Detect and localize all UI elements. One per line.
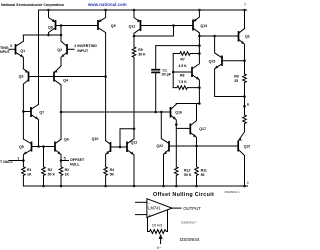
transistor Q1 (NPN) <box>9 35 25 69</box>
op-amp LM741 triangle <box>147 199 172 218</box>
node dot R3 bottom on V- rail <box>42 185 45 188</box>
transistor Q4 (PNP, mirrored) <box>54 66 68 112</box>
node dot Q7 emitter on base line <box>37 145 40 148</box>
node dot Q15 base / Q14 emitter junction <box>243 59 246 62</box>
node dot Q13 collector <box>198 35 201 38</box>
node dot Q17 emitter / R11 top <box>195 145 198 148</box>
wire: C1 top loop <box>156 46 200 70</box>
node dot diode link bottom <box>60 34 63 37</box>
input stubs <box>136 201 147 203</box>
svg-text:INPUT: INPUT <box>77 49 89 53</box>
svg-text:R1: R1 <box>27 168 32 172</box>
svg-text:5: 5 <box>64 157 66 161</box>
svg-text:4: 4 <box>247 181 249 185</box>
wire: Q13 collector net down (C1 top, R7 right, Q18 collector) <box>198 36 200 63</box>
svg-text:50 K: 50 K <box>48 173 56 177</box>
node dot Q12 collector/R5 <box>133 35 136 38</box>
transistor Q18 (NPN, VBE multiplier) <box>173 64 199 88</box>
svg-text:R4: R4 <box>110 168 115 172</box>
node dot Q20 collector on V- rail (pin 4) <box>243 185 246 188</box>
resistor R3 50K <box>42 147 56 187</box>
transistor Q7 (NPN) <box>23 104 44 146</box>
svg-text:6: 6 <box>247 103 249 107</box>
node dot Q11 diode link on collector line <box>133 128 136 131</box>
transistor Q5 (NPN, mirrored) <box>19 139 32 161</box>
svg-text:OUTPUT: OUTPUT <box>183 206 201 211</box>
svg-text:www.national.com: www.national.com <box>87 2 127 7</box>
svg-text:Q12: Q12 <box>129 24 136 28</box>
svg-text:Q9: Q9 <box>111 24 116 28</box>
wire: R5 / Q12 collector down to Q11 collector <box>133 36 135 47</box>
resistor R12 50K <box>175 167 192 186</box>
pin 1 offset null stub <box>9 160 23 162</box>
svg-text:50: 50 <box>201 173 205 177</box>
svg-text:R11: R11 <box>201 169 207 173</box>
wire: second stage input line <box>61 111 171 113</box>
svg-text:Q15: Q15 <box>209 60 216 64</box>
svg-text:10 kΩ: 10 kΩ <box>152 223 163 228</box>
svg-text:Q22: Q22 <box>156 144 163 148</box>
transistor Q12 (PNP) <box>129 9 193 36</box>
svg-text:Q6: Q6 <box>64 138 69 142</box>
node dot Q11 emitter on V- rail <box>133 185 136 188</box>
svg-text:7: 7 <box>244 3 246 7</box>
wire: Q18 emitter net down to Q17 collector <box>198 88 200 104</box>
node dot diode link top <box>60 24 63 27</box>
svg-text:1: 1 <box>17 157 19 161</box>
resistor R10 50 <box>243 115 247 132</box>
node dot Q12 diode link to base line <box>172 24 175 27</box>
transistor Q3 (PNP) <box>19 69 29 139</box>
svg-text:30 pF: 30 pF <box>162 73 172 77</box>
svg-text:39 K: 39 K <box>138 52 146 56</box>
node dot Q16 emitter / Q17 base <box>175 123 178 126</box>
wire: R7/R8 left rail with Q18 base tap <box>172 54 174 88</box>
svg-text:DS00934: DS00934 <box>180 237 200 242</box>
node dot C1 bottom on second stage line <box>154 111 157 114</box>
resistor R11 50 <box>195 146 207 186</box>
node dot Q7 base tap <box>22 110 25 113</box>
wire: Q9 collector down to Q10 collector <box>105 34 107 141</box>
transistor Q16 (NPN, second stage input) <box>171 104 182 167</box>
svg-text:R3: R3 <box>48 168 53 172</box>
V+ top rail (pin 7) with left bend down to Q7 collector <box>39 10 247 104</box>
node: Q1/Q2 collectors to Q8 collector line <box>23 34 61 36</box>
transistor Q8 (PNP) <box>47 9 98 35</box>
svg-text:4.5 K: 4.5 K <box>178 64 187 68</box>
svg-text:DS009341-1: DS009341-1 <box>225 190 241 194</box>
node dot output pin 6 <box>243 105 246 108</box>
svg-text:Q3: Q3 <box>19 75 24 79</box>
transistor Q11 (NPN) <box>120 139 137 186</box>
svg-text:DS009341-7: DS009341-7 <box>181 220 197 224</box>
transistor Q15 (NPN, current limit) <box>209 36 245 97</box>
node dot R11 bottom on V- rail <box>195 185 198 188</box>
svg-text:Q7: Q7 <box>39 111 44 115</box>
svg-text:3: 3 <box>10 44 12 48</box>
wire: Q13 collector node to Q14 base <box>199 35 238 37</box>
svg-text:2: 2 <box>74 44 76 48</box>
transistor Q14 (NPN, output top) <box>239 29 252 75</box>
node dot R4 bottom on V- rail <box>104 185 107 188</box>
svg-text:INVERTING: INVERTING <box>77 44 97 48</box>
transistor Q17 (NPN) <box>176 104 206 147</box>
transistor Q9 (PNP, mirrored) <box>98 9 116 34</box>
wire: base tie up and over to Q11 collector (diode link) <box>120 129 134 147</box>
svg-text:50 K: 50 K <box>184 173 192 177</box>
svg-text:Q10: Q10 <box>92 137 99 141</box>
svg-text:LM741: LM741 <box>148 206 161 211</box>
node dot C1 top branch <box>198 44 201 47</box>
wiper arrow <box>159 234 163 239</box>
node dot Q8 collector <box>47 34 50 37</box>
svg-text:25: 25 <box>234 79 238 83</box>
capacitor C1 30pF <box>151 68 172 112</box>
node dot pin5/R2/Q6 emitter junction <box>60 159 63 162</box>
output wire <box>172 207 181 209</box>
node dot Q3/Q4 base tie on Q9 collector line <box>104 75 107 78</box>
svg-text:T NULL: T NULL <box>0 160 14 164</box>
svg-text:R8: R8 <box>180 74 185 78</box>
node dot Q15 emitter on output net <box>243 95 246 98</box>
wire: Q12 diode link <box>134 26 174 37</box>
svg-text:R9: R9 <box>234 75 239 79</box>
svg-text:NULL: NULL <box>70 163 80 167</box>
node dot Q22 emitter on V- rail <box>162 185 165 188</box>
transistor Q22 (NPN) <box>156 112 169 186</box>
wire: Q3/Q4 base line to Q9 collector <box>29 76 106 78</box>
resistor R7 4.5K (horizontal) <box>173 52 199 68</box>
resistor R9 25 <box>234 74 246 115</box>
V- bottom rail (pin 4) <box>23 185 247 187</box>
resistor R4 5K <box>104 167 115 186</box>
wire: Q8 diode link (base to collector) <box>60 26 62 36</box>
svg-text:V−: V− <box>157 246 162 250</box>
svg-text:Q4: Q4 <box>63 79 68 83</box>
transistor Q20 (PNP, output bottom) <box>238 132 250 186</box>
transistor Q6 (NPN) <box>55 112 69 161</box>
node dot Q18 emitter / R8 junction <box>198 86 201 89</box>
svg-text:R7: R7 <box>180 57 185 61</box>
svg-text:Q8: Q8 <box>48 25 53 29</box>
transistor Q2 (NPN, mirrored) <box>57 35 74 66</box>
node dot R12 bottom on V- rail <box>175 185 178 188</box>
resistor R8 7.5K (horizontal) <box>173 74 199 90</box>
svg-text:Q13: Q13 <box>200 24 207 28</box>
wire: Q16 collector line to Q17 collector net <box>176 103 199 105</box>
svg-text:Q2: Q2 <box>57 48 62 52</box>
svg-text:Q1: Q1 <box>20 49 25 53</box>
svg-text:5K: 5K <box>110 173 115 177</box>
resistor R5 39K <box>132 47 146 139</box>
node dot R2 bottom on V- rail <box>60 185 63 188</box>
transistor Q13 (PNP, mirrored) <box>193 9 207 36</box>
resistor R2 1K <box>59 161 69 187</box>
svg-text:1K: 1K <box>65 173 70 177</box>
svg-text:Q5: Q5 <box>19 145 24 149</box>
node dot Q15 collector branch <box>213 35 216 38</box>
resistor R1 1K <box>22 161 32 187</box>
svg-text:OFFSET: OFFSET <box>70 158 85 162</box>
svg-text:1K: 1K <box>27 173 32 177</box>
wire: Q17 emitter / Q22 base / Q20 base line <box>169 145 238 147</box>
svg-text:Q16: Q16 <box>175 110 182 114</box>
node dot R7 right end <box>198 52 201 55</box>
svg-text:Q14: Q14 <box>245 35 250 39</box>
pin 5 offset null stub <box>61 160 69 162</box>
svg-text:Offset Nulling Circuit: Offset Nulling Circuit <box>153 192 214 198</box>
node dot Q4 collector / second stage line <box>60 111 63 114</box>
node dot Q22 collector on second stage line <box>160 111 163 114</box>
svg-text:NPUT: NPUT <box>0 50 11 54</box>
wire: Q5/Q6 base line <box>32 146 56 148</box>
svg-text:Q11: Q11 <box>131 140 138 144</box>
transistor Q10 (NPN, mirrored) <box>92 137 120 167</box>
node dot Q10/Q11 base tie <box>119 146 122 149</box>
node dot Q18 base tap <box>172 71 175 74</box>
node dot R3 top <box>42 145 45 148</box>
svg-text:Q20: Q20 <box>244 144 250 148</box>
potentiometer 10 kOhm <box>148 210 168 250</box>
svg-text:7.5 K: 7.5 K <box>178 80 187 84</box>
node dot pin1/R1/Q5 emitter junction <box>22 159 25 162</box>
svg-text:R12: R12 <box>184 169 190 173</box>
svg-text:R5: R5 <box>138 48 143 52</box>
svg-text:R2: R2 <box>65 168 70 172</box>
svg-text:Q17: Q17 <box>199 127 206 131</box>
svg-text:National Semiconductor Corpora: National Semiconductor Corporation <box>1 3 64 7</box>
node dot Q16 collector line / Q17 collector net <box>198 102 201 105</box>
